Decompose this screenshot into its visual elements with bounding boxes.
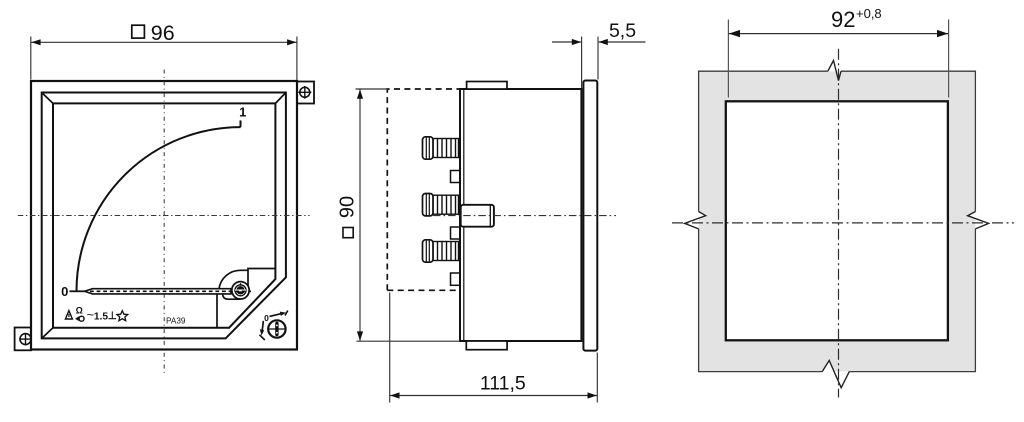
tick 1 end bbox=[240, 120, 242, 127]
svg-text:0: 0 bbox=[264, 313, 269, 323]
svg-text:92: 92 bbox=[831, 7, 855, 32]
dimension 96 extension lines bbox=[31, 37, 297, 81]
break mark top bbox=[828, 61, 841, 81]
panel gray plate bbox=[699, 71, 976, 371]
svg-text:96: 96 bbox=[151, 21, 175, 45]
dimension 92 arrowheads bbox=[729, 30, 948, 37]
mounting ear top-right bbox=[297, 82, 314, 104]
svg-text:+0,8: +0,8 bbox=[856, 6, 882, 21]
side view front bezel flange bbox=[583, 81, 597, 351]
shielded instrument symbol bbox=[75, 306, 84, 322]
side view terminal screw 2 bbox=[423, 194, 459, 216]
terminal spacer block lower bbox=[451, 273, 461, 285]
dimension 90 arrowheads bbox=[357, 90, 363, 341]
dimension 111,5 extensions bbox=[390, 293, 598, 403]
scale arc bbox=[70, 120, 241, 291]
side view centerline bbox=[433, 215, 616, 217]
pointer needle bbox=[85, 289, 232, 294]
dimension 5,5 arrowheads bbox=[572, 39, 608, 45]
side view dashed clearance box bbox=[387, 89, 461, 290]
panel border segments bbox=[699, 71, 976, 371]
warning triangle symbol bbox=[65, 311, 72, 319]
side view terminal screw 1 bbox=[423, 137, 459, 159]
svg-text:Ω: Ω bbox=[76, 306, 83, 316]
front view centerline horizontal bbox=[18, 215, 310, 217]
dimension text square 96 bbox=[132, 21, 175, 45]
break mark bottom bbox=[822, 361, 849, 388]
AC class markings ~1.5 perpendicular bbox=[87, 308, 117, 322]
dial window with cut corner bbox=[53, 103, 275, 327]
front bezel frame with cut corner bbox=[42, 93, 286, 339]
panel cutout hole bbox=[726, 101, 948, 340]
needle dashed centerline bbox=[90, 290, 251, 292]
svg-text:111,5: 111,5 bbox=[480, 373, 526, 395]
zero adjuster symbol bbox=[260, 311, 288, 341]
front view centerline vertical bbox=[163, 70, 165, 376]
dimension text 92 +0,8 bbox=[831, 6, 882, 32]
side view shaft stub bbox=[461, 205, 494, 227]
side view bottom tab bbox=[466, 341, 507, 350]
dimension text square 90 rotated bbox=[337, 196, 359, 238]
dimension 92 line bbox=[728, 33, 948, 35]
panel centerline horizontal bbox=[672, 222, 1014, 224]
terminal spacer block upper bbox=[451, 171, 461, 183]
dimension 90 line and extensions bbox=[356, 89, 461, 341]
dimension 96 line bbox=[31, 41, 297, 43]
mounting ear bottom-left bbox=[15, 328, 32, 351]
dimension 111,5 arrowheads bbox=[390, 392, 597, 398]
svg-text:1.5: 1.5 bbox=[94, 311, 108, 322]
pivot circle bbox=[232, 282, 249, 299]
svg-text:5,5: 5,5 bbox=[609, 20, 636, 42]
movement housing around pivot bbox=[217, 269, 275, 328]
svg-text:PA39: PA39 bbox=[166, 317, 186, 326]
side view terminal screw 3 bbox=[423, 240, 459, 262]
dimension 5,5 extensions bbox=[552, 37, 646, 89]
svg-text:0: 0 bbox=[61, 284, 68, 299]
svg-text:~: ~ bbox=[87, 308, 94, 322]
side view meter body bbox=[460, 89, 581, 341]
terminal spacer block middle bbox=[451, 227, 461, 239]
dimension 92 extensions bbox=[728, 20, 948, 98]
svg-text:90: 90 bbox=[337, 196, 359, 218]
tick 0 end bbox=[70, 290, 85, 292]
svg-text:1: 1 bbox=[239, 104, 246, 119]
dimension 96 arrowheads bbox=[31, 39, 296, 45]
panel centerline vertical bbox=[838, 49, 840, 398]
front view outer case bbox=[31, 81, 297, 350]
break mark left bbox=[685, 212, 706, 229]
side view top tab bbox=[467, 82, 507, 90]
svg-text:⊥: ⊥ bbox=[108, 310, 117, 322]
bezel corner bevel lines bbox=[42, 93, 286, 339]
test voltage star symbol bbox=[117, 311, 128, 321]
break mark right bbox=[968, 212, 989, 229]
